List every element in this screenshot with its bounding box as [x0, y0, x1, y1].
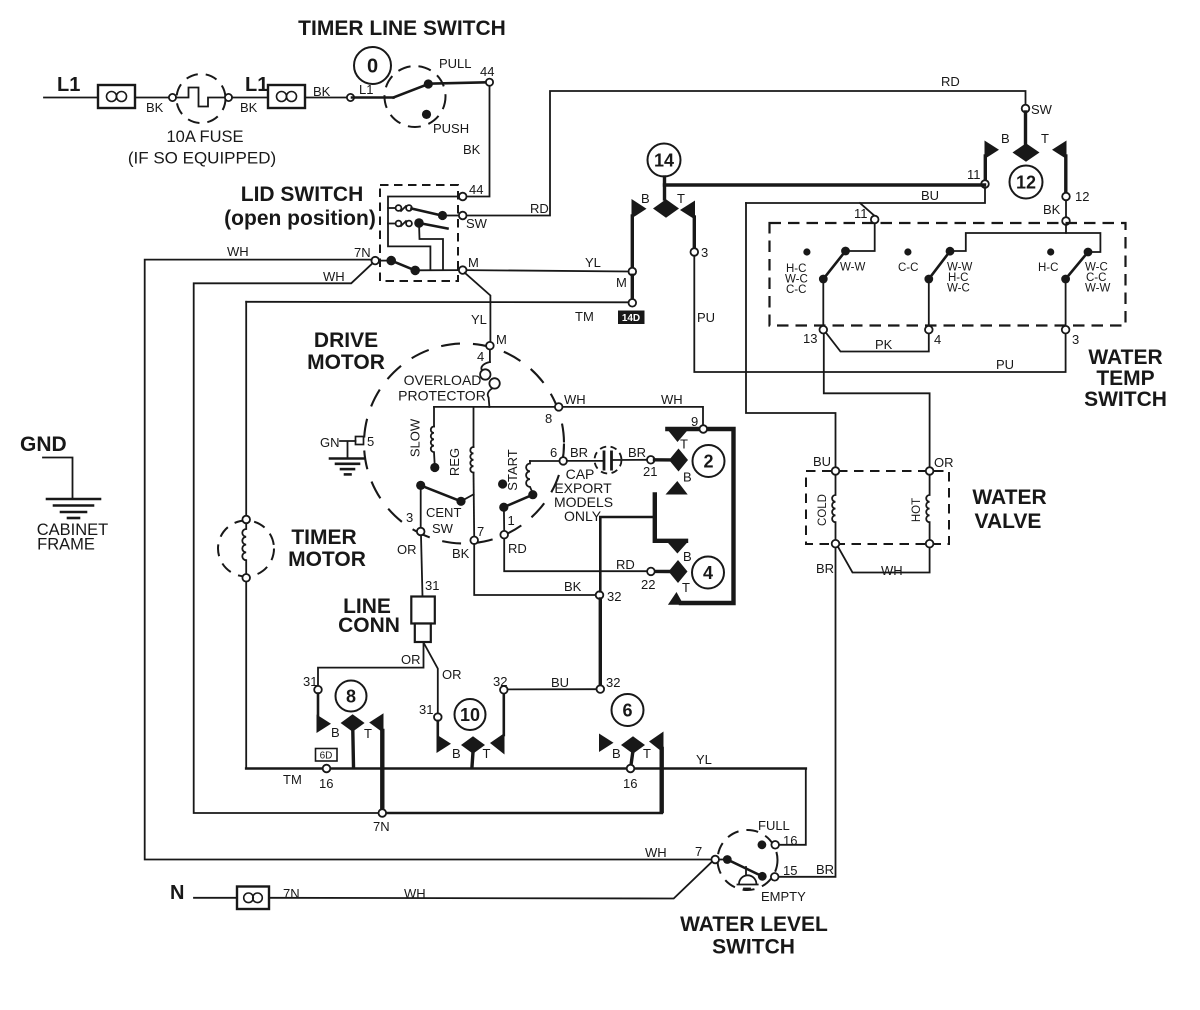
node 32 (flag 10) — [500, 686, 508, 694]
flag 12 stub wire — [1024, 112, 1027, 145]
svg-text:FULL: FULL — [758, 818, 790, 833]
water level switch dashed circle — [718, 830, 778, 890]
label LINE CONN — [338, 595, 400, 637]
node timer motor top — [242, 516, 250, 524]
svg-text:RD: RD — [941, 74, 960, 89]
label WATER LEVEL SWITCH — [680, 913, 828, 959]
svg-text:WH: WH — [661, 392, 683, 407]
node L1 switch input — [347, 94, 354, 101]
wire BK into switch (split) — [953, 225, 1067, 251]
node 3 (cent sw) — [417, 528, 425, 536]
svg-text:9: 9 — [691, 414, 698, 429]
wire blade to node 44 — [428, 82, 485, 83]
pivot dot (water level) — [723, 855, 732, 864]
wire WH elbow (hot bottom to cold bottom) — [838, 547, 930, 573]
wire BU: node 32 to node 32b — [508, 688, 597, 690]
flag 14 stub wire — [663, 177, 666, 199]
label WATER VALVE — [972, 486, 1046, 533]
start switch blade — [504, 495, 533, 508]
node 7 (water level) — [711, 856, 719, 864]
svg-text:TM: TM — [575, 309, 594, 324]
START winding — [526, 461, 532, 491]
svg-text:BU: BU — [921, 188, 939, 203]
wire N line to water level node 7 — [269, 862, 712, 899]
svg-text:32: 32 — [607, 589, 621, 604]
drive motor dashed circle — [364, 344, 564, 544]
wire diamond2 to node 21 — [655, 458, 670, 462]
wire TM horizontal (node TM to left side) — [246, 301, 628, 304]
wire BK split right branch — [1066, 233, 1100, 252]
svg-text:(IF SO EQUIPPED): (IF SO EQUIPPED) — [128, 149, 276, 168]
svg-text:PU: PU — [697, 310, 715, 325]
svg-text:OR: OR — [934, 455, 954, 470]
svg-text:TM: TM — [283, 772, 302, 787]
contact dot FULL — [758, 840, 767, 849]
wire YL: TM wire right end down to water level FULL — [779, 769, 806, 845]
svg-text:22: 22 — [641, 577, 655, 592]
temp switch group1 bullet — [803, 248, 810, 255]
flag 12 right triangle — [1052, 141, 1067, 160]
svg-text:OR: OR — [397, 542, 417, 557]
svg-text:31: 31 — [419, 702, 433, 717]
ground symbol (drive motor) — [330, 459, 364, 475]
svg-text:T: T — [364, 726, 372, 741]
flag 10 diamond — [461, 736, 485, 753]
contact dot PUSH — [422, 110, 431, 119]
node (fuse right) — [225, 94, 232, 101]
svg-text:4: 4 — [477, 349, 484, 364]
svg-text:B: B — [331, 725, 340, 740]
svg-text:WATER LEVEL: WATER LEVEL — [680, 913, 828, 936]
wire node 7 to pivot — [719, 859, 727, 861]
node 16b (TM wire) — [627, 765, 635, 773]
node 44 (lid switch) — [459, 193, 467, 201]
start coil bottom dot — [528, 490, 537, 499]
circled 4 — [692, 557, 724, 589]
svg-text:W-C: W-C — [947, 283, 970, 295]
wire group3 to node 3 — [1065, 279, 1067, 326]
circled 8 — [336, 681, 367, 712]
wire YL: lid M to flag14 M — [467, 270, 629, 271]
svg-text:32: 32 — [606, 675, 620, 690]
wire PU: node 3 down and right to temp switch node 3 — [694, 256, 1065, 372]
wire node 12 to BK node — [1065, 200, 1067, 217]
svg-text:WH: WH — [227, 244, 249, 259]
wire BR: cold bottom down to level switch — [779, 548, 836, 877]
node SW — [459, 212, 467, 220]
wire 32 node down to flag6 — [599, 599, 602, 686]
flag 4 top triangle — [667, 542, 688, 554]
svg-text:B: B — [683, 470, 692, 485]
overload protector — [480, 350, 500, 407]
svg-text:32: 32 — [493, 674, 507, 689]
wire OR node 3 to line conn — [421, 535, 423, 596]
svg-text:C-C: C-C — [898, 262, 918, 274]
svg-text:SWITCH: SWITCH — [1084, 388, 1167, 411]
node 32 (left) — [596, 591, 604, 599]
label CABINET FRAME — [37, 521, 109, 554]
circled 14 — [648, 144, 681, 177]
svg-text:T: T — [1041, 131, 1049, 146]
svg-text:PROTECTOR: PROTECTOR — [398, 388, 486, 404]
flag 2 diamond — [669, 449, 688, 472]
node 11 (temp switch) — [871, 216, 879, 224]
START circuit: node 6 — [559, 457, 567, 465]
wire pivot down to node 3 — [420, 489, 422, 528]
svg-text:RD: RD — [616, 557, 635, 572]
svg-text:6: 6 — [550, 445, 557, 460]
svg-text:WH: WH — [564, 392, 586, 407]
group3 blade — [1061, 248, 1092, 284]
wire 31 to flag 10 left triangle — [436, 721, 439, 736]
node M (lid switch) — [459, 266, 467, 274]
svg-text:7N: 7N — [283, 886, 300, 901]
node 1 — [500, 531, 508, 539]
svg-text:MOTOR: MOTOR — [288, 548, 366, 571]
labels W-W H-C W-C (group2) — [947, 262, 972, 295]
svg-text:31: 31 — [303, 674, 317, 689]
node 7 — [470, 537, 478, 545]
node 3 (temp switch) — [1062, 326, 1070, 334]
label CENT SW — [426, 505, 461, 536]
flag 10 stub to TM wire — [472, 752, 473, 767]
wire RD: SW node to top right — [467, 91, 1026, 216]
wire TM vertical x=246 lower — [245, 582, 247, 769]
flag 14 left triangle — [632, 199, 647, 219]
wire group2 to node 4 — [928, 279, 930, 326]
svg-text:ONLY: ONLY — [564, 508, 602, 524]
node 12 — [1062, 193, 1070, 201]
svg-text:BK: BK — [564, 579, 582, 594]
connector CONN1 — [98, 85, 135, 108]
svg-text:T: T — [643, 746, 651, 761]
svg-text:L1: L1 — [245, 74, 268, 96]
node 9 — [700, 425, 708, 433]
svg-text:6: 6 — [622, 701, 632, 721]
svg-text:10A FUSE: 10A FUSE — [166, 128, 243, 146]
svg-text:H-C: H-C — [1038, 262, 1058, 274]
svg-text:B: B — [641, 191, 650, 206]
node 13 — [820, 326, 828, 334]
node 15 (EMPTY) — [771, 873, 779, 881]
switch blade (timer line switch) — [394, 84, 429, 98]
wire 7N node to pivot — [379, 260, 391, 262]
label DRIVE MOTOR — [307, 329, 385, 374]
wire YL branch: lid M diagonal down to drive motor M — [465, 273, 491, 342]
wire 7N bottom horizontal — [382, 812, 661, 815]
svg-text:C-C: C-C — [786, 284, 806, 296]
svg-text:COLD: COLD — [817, 494, 829, 526]
svg-text:YL: YL — [585, 255, 601, 270]
svg-text:T: T — [682, 580, 690, 595]
svg-text:16: 16 — [623, 776, 637, 791]
svg-text:CENT: CENT — [426, 505, 461, 520]
flag 8 right triangle — [369, 713, 383, 733]
CENT SW blade — [421, 485, 461, 501]
svg-text:W-W: W-W — [840, 262, 865, 274]
wire to node M — [415, 269, 459, 271]
svg-text:WH: WH — [881, 563, 903, 578]
node 22 — [647, 568, 655, 576]
node 16 (FULL) — [771, 841, 779, 849]
label WATER TEMP SWITCH — [1084, 346, 1167, 411]
wire node44 down to lid switch — [466, 86, 490, 197]
node 21 — [647, 456, 655, 464]
wire connector 2 to switch — [305, 97, 347, 99]
flag 2 top triangle — [667, 430, 688, 443]
svg-text:RD: RD — [508, 541, 527, 556]
wire line conn right branch (OR) — [424, 643, 438, 714]
flag 12 left triangle — [985, 141, 1000, 160]
wire node9 bracket (right vertical down to flag4 bottom) — [667, 429, 733, 603]
node SW (flag 12 top) — [1022, 105, 1030, 113]
svg-text:4: 4 — [703, 563, 713, 583]
svg-text:PULL: PULL — [439, 56, 472, 71]
svg-text:TIMER LINE SWITCH: TIMER LINE SWITCH — [298, 17, 506, 40]
wire connector to fuse — [135, 97, 169, 99]
node 7N (lid switch) — [371, 257, 379, 265]
svg-text:BR: BR — [628, 445, 646, 460]
svg-text:BU: BU — [813, 454, 831, 469]
svg-text:VALVE: VALVE — [975, 510, 1042, 533]
svg-text:12: 12 — [1075, 189, 1089, 204]
flag 8 stub to TM wire — [351, 730, 355, 767]
wire to SW node — [445, 215, 459, 217]
svg-text:3: 3 — [406, 510, 413, 525]
svg-text:T: T — [677, 191, 685, 206]
wire node 11 to BU corner — [746, 188, 985, 203]
svg-text:PU: PU — [996, 357, 1014, 372]
svg-text:44: 44 — [480, 64, 494, 79]
svg-text:LID SWITCH: LID SWITCH — [241, 183, 363, 206]
label TIMER MOTOR — [288, 526, 366, 571]
blade row1 to SW — [412, 209, 442, 216]
group1 blade — [819, 247, 850, 284]
node BR (cold bottom) — [832, 540, 840, 548]
CENT SW pivot dot — [416, 481, 425, 490]
svg-text:3: 3 — [701, 245, 708, 260]
wire group1 to node 13 — [822, 279, 824, 326]
contact dot row1 — [438, 211, 447, 220]
svg-text:10: 10 — [460, 705, 480, 725]
lid switch row1 tap — [388, 207, 395, 209]
line conn plug symbol — [411, 597, 435, 643]
node 31 (flag 8) — [314, 686, 322, 694]
node (fuse left) — [169, 94, 176, 101]
blade 7N row — [391, 261, 415, 271]
pivot dot row2 — [414, 218, 424, 228]
wire line conn left branch (OR) — [318, 643, 424, 687]
svg-text:WH: WH — [404, 886, 426, 901]
svg-text:PK: PK — [875, 337, 893, 352]
flag 6 diamond — [621, 736, 645, 753]
node BU (cold top) — [832, 467, 840, 475]
svg-text:BK: BK — [463, 142, 481, 157]
svg-text:8: 8 — [346, 687, 356, 707]
svg-text:EMPTY: EMPTY — [761, 889, 806, 904]
svg-text:21: 21 — [643, 464, 657, 479]
CENT SW contact dot — [456, 497, 465, 506]
flag 14 diamond — [653, 199, 679, 217]
svg-text:DRIVE: DRIVE — [314, 329, 378, 352]
flag 6 stub to node 16b — [631, 752, 633, 765]
svg-text:5: 5 — [367, 434, 374, 449]
wire OR: node 13 down to water valve — [824, 334, 930, 468]
svg-text:7: 7 — [695, 844, 702, 859]
timer motor dashed circle — [218, 521, 274, 577]
svg-text:B: B — [683, 549, 692, 564]
node TM junction — [629, 299, 637, 307]
node timer motor bottom — [242, 574, 250, 582]
svg-text:6D: 6D — [320, 751, 333, 762]
flag 8 diamond — [341, 714, 365, 731]
svg-text:WATER: WATER — [1088, 346, 1162, 369]
svg-text:4: 4 — [934, 332, 941, 347]
svg-text:B: B — [1001, 131, 1010, 146]
circled 6 — [612, 694, 644, 726]
svg-text:11: 11 — [854, 206, 868, 221]
flag 2 bottom triangle — [666, 481, 688, 495]
circled 0 (timer line switch) — [354, 47, 391, 84]
wire pivot to node 1 — [503, 507, 505, 531]
flag 12 left wire to node 11 — [984, 156, 987, 181]
tag 14D (black box) — [618, 311, 645, 325]
svg-text:16: 16 — [319, 776, 333, 791]
wire 31 to flag 8 left triangle — [317, 694, 320, 717]
contact dot PULL — [424, 79, 433, 88]
node M (drive motor) — [486, 342, 494, 350]
svg-text:15: 15 — [783, 863, 797, 878]
svg-text:HOT: HOT — [911, 498, 923, 522]
flag 10 left triangle — [437, 735, 452, 754]
svg-text:OVERLOAD: OVERLOAD — [404, 372, 482, 388]
svg-text:8: 8 — [545, 411, 552, 426]
wire row2 pivot down to M — [419, 223, 443, 270]
svg-text:TEMP: TEMP — [1096, 367, 1154, 390]
timer motor winding — [242, 523, 246, 574]
start open contact dot — [498, 479, 507, 488]
REG winding — [470, 407, 474, 537]
lid switch internal wire from 44 — [388, 197, 459, 271]
node M (flag 14) — [629, 268, 637, 276]
node 11 — [981, 180, 989, 188]
labels H-C W-C C-C (group1) — [785, 263, 808, 296]
wire node11 into switch group1 — [848, 223, 875, 251]
svg-text:PUSH: PUSH — [433, 121, 469, 136]
svg-text:T: T — [680, 437, 688, 452]
svg-text:B: B — [612, 746, 621, 761]
labels W-C C-C W-W (group3) — [1085, 262, 1110, 295]
wire BK: node 7 down to node 32 — [474, 544, 596, 595]
svg-text:SW: SW — [1031, 102, 1053, 117]
node 32b — [597, 685, 605, 693]
svg-text:BK: BK — [1043, 202, 1061, 217]
svg-text:2: 2 — [703, 452, 713, 472]
wire L1 to connector — [44, 97, 98, 99]
capacitor C1 (dashed circle) — [567, 447, 647, 474]
svg-text:START: START — [505, 449, 520, 490]
svg-text:31: 31 — [425, 578, 439, 593]
timer line switch dashed circle — [385, 66, 446, 127]
wire protector bottom horizontal — [434, 406, 555, 408]
wire flag14 to node 11 (long horizontal) — [665, 183, 985, 186]
temp switch group2 bullet — [904, 248, 911, 255]
svg-text:T: T — [483, 746, 491, 761]
flag 12 diamond — [1013, 143, 1040, 161]
flag 4 bottom triangle — [668, 592, 684, 605]
svg-text:RD: RD — [530, 201, 549, 216]
svg-text:BR: BR — [816, 862, 834, 877]
svg-text:M: M — [496, 332, 507, 347]
node 16 (TM wire) — [323, 765, 331, 773]
temp switch group3 bullet — [1047, 248, 1054, 255]
flag 14 right triangle — [680, 201, 695, 220]
wire WH branch 2: lid 7N diagonal, down x=194, to 7N bottom wire — [194, 263, 379, 813]
wire TM vertical x=246 upper — [245, 302, 247, 516]
lid switch dashed box — [380, 185, 458, 281]
pivot dot 7N row — [386, 256, 396, 266]
svg-text:REG: REG — [447, 448, 462, 476]
node 4 — [925, 326, 933, 334]
flag 10 right triangle — [490, 733, 505, 755]
start switch pivot dot — [499, 503, 508, 512]
svg-text:TIMER: TIMER — [291, 526, 356, 549]
wire WH node8 to node 9 corner — [563, 407, 704, 426]
switch wire to pivot — [352, 96, 394, 99]
wire flag2-area vertical x600 (32 net) — [600, 517, 655, 591]
node 3 — [691, 248, 699, 256]
svg-text:12: 12 — [1016, 173, 1036, 193]
flag 6 right triangle — [649, 732, 664, 754]
svg-text:M: M — [468, 255, 479, 270]
ground symbol (cabinet frame) — [47, 499, 100, 518]
wire flag 6 T down to 7N wire — [660, 749, 664, 811]
wire BU drop to temp switch node 11 — [860, 203, 875, 216]
label CAP EXPORT MODELS ONLY — [554, 466, 613, 524]
wire TM bottom horizontal — [246, 767, 806, 770]
svg-text:SW: SW — [466, 216, 488, 231]
tag 6D box — [316, 749, 338, 762]
svg-text:YL: YL — [471, 312, 487, 327]
label OVERLOAD PROTECTOR — [398, 372, 486, 404]
wire GN to ground — [340, 441, 356, 458]
svg-text:FRAME: FRAME — [37, 536, 95, 554]
svg-text:MOTOR: MOTOR — [307, 351, 385, 374]
water valve dashed box — [806, 471, 949, 544]
fuse F1 (10A, dashed circle) — [176, 74, 226, 123]
wire RD node1 to node 22 — [504, 539, 647, 572]
wire node M to node TM — [631, 275, 634, 299]
svg-text:44: 44 — [469, 182, 483, 197]
wire node6 to start coil — [530, 460, 560, 462]
svg-text:GN: GN — [320, 435, 340, 450]
svg-text:BK: BK — [452, 546, 470, 561]
node 31 (flag 10) — [434, 713, 442, 721]
water level blade to EMPTY — [727, 860, 762, 877]
open blade row2 — [419, 223, 448, 229]
wire BU down left side to water valve — [746, 203, 836, 467]
svg-text:WH: WH — [645, 845, 667, 860]
wire fuse to connector 2 — [232, 97, 268, 99]
wire WH: lid 7N left and down (x=145) — [145, 260, 712, 860]
flag 4 diamond — [669, 560, 688, 583]
svg-text:M: M — [616, 275, 627, 290]
flag 14 right wire to node 3 — [693, 217, 696, 249]
flag 6 left triangle — [599, 734, 614, 753]
node 44 — [486, 79, 493, 86]
svg-text:W-W: W-W — [1085, 283, 1110, 295]
node OR (hot top) — [926, 467, 934, 475]
